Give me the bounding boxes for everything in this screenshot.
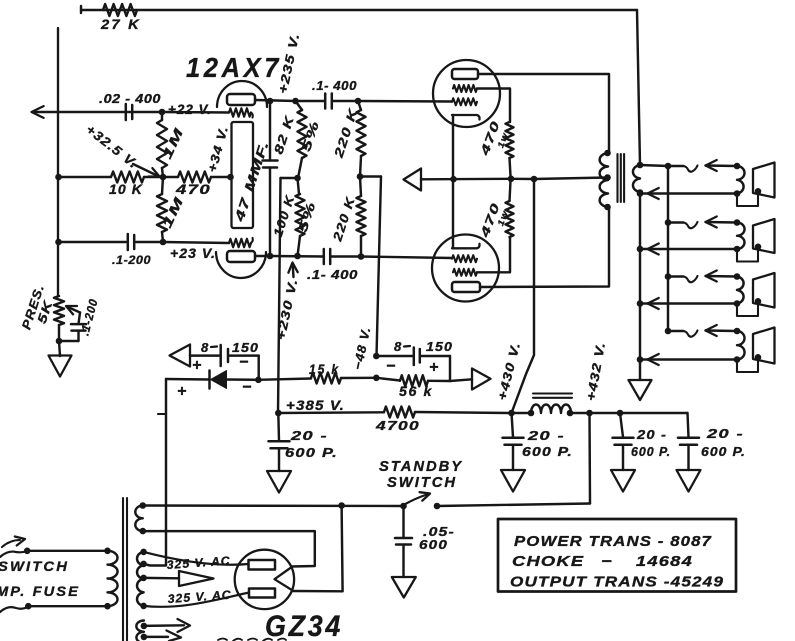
node 220K-A top — [355, 98, 362, 105]
node PT 325-2 tap — [140, 603, 147, 610]
node speaker 1 bottom — [734, 190, 741, 197]
node OT primary bottom — [604, 204, 611, 211]
node .02-400 junction — [159, 109, 166, 116]
wire speaker 2 return — [648, 248, 736, 250]
resistor 1M upper — [161, 112, 163, 120]
jack 3 tip contact — [668, 275, 684, 277]
node standby right — [434, 503, 441, 510]
tube V3 cathode — [452, 244, 480, 249]
node PT heater tap — [140, 575, 147, 582]
node PT bias tap — [140, 561, 147, 568]
node 82K top — [292, 98, 299, 105]
node PT pri bottom — [104, 603, 111, 610]
wire 470 rail — [144, 176, 178, 178]
tube V2 cathode — [452, 115, 480, 120]
node 220K junction — [357, 173, 364, 180]
svg-text:.1-200: .1-200 — [77, 297, 100, 337]
resistor 470-1W A — [506, 122, 514, 158]
svg-text:4700: 4700 — [375, 418, 420, 433]
wire output arrow left — [33, 111, 162, 113]
svg-text:47 MMF.: 47 MMF. — [231, 138, 272, 224]
node speaker 4 top — [734, 328, 741, 335]
node 1M junction — [160, 174, 167, 181]
tube V1 plate lower — [227, 251, 255, 262]
tube V1 grid lower — [229, 239, 251, 247]
node speaker 3 top — [734, 273, 741, 280]
speaker 4 voice coil — [737, 331, 745, 360]
ground cap B — [501, 470, 525, 492]
svg-text:+: + — [192, 357, 202, 374]
node 82K-100K junction — [294, 175, 301, 182]
node 100K bottom — [294, 253, 301, 260]
capacitor 47MMF — [269, 101, 271, 161]
tube V1 bottom envelope arc — [216, 252, 266, 278]
svg-text:+22 V.: +22 V. — [168, 102, 212, 117]
svg-text:150: 150 — [232, 340, 259, 355]
resistor 470-1W B — [506, 201, 514, 237]
svg-text:POWER TRANS - 8087: POWER TRANS - 8087 — [514, 533, 712, 550]
arrow plug 2 — [706, 217, 717, 228]
transformer OT primary — [600, 153, 608, 207]
svg-text:56 k: 56 k — [399, 384, 433, 399]
tube V3 envelope — [432, 235, 499, 302]
arrow plug 1 — [706, 160, 717, 171]
node PT 6v bottom — [141, 634, 148, 641]
node pri bottom terminal — [25, 603, 32, 610]
tube V2 screen grid — [453, 85, 477, 92]
svg-text:20 -: 20 - — [636, 427, 667, 442]
label dashA — [211, 345, 217, 348]
svg-text:20 -: 20 - — [290, 428, 328, 443]
wire secondary to jacks — [640, 165, 668, 166]
transformer PT HV top winding — [135, 506, 143, 532]
node cap C junction — [617, 410, 624, 417]
switch standby lever — [404, 495, 428, 506]
jack 4 tip contact — [668, 330, 684, 332]
node horn terminal 1 — [755, 188, 762, 195]
node 432 junction — [586, 410, 593, 417]
transformer PT 6.3V winding — [136, 621, 144, 641]
resistor 4700 — [384, 407, 415, 418]
svg-text:600 P.: 600 P. — [522, 444, 573, 459]
arrow +230V — [292, 266, 295, 277]
svg-text:+432 V.: +432 V. — [584, 341, 608, 403]
wire B+ rail left — [278, 411, 384, 414]
svg-text:+385 V.: +385 V. — [286, 398, 345, 413]
speaker 3 voice coil — [737, 277, 744, 304]
node speaker 2 top — [734, 219, 741, 226]
svg-text:−48 V.: −48 V. — [351, 325, 374, 371]
wire speaker 3 return — [648, 302, 736, 304]
node horn terminal 2 — [755, 244, 762, 251]
resistor 27K — [103, 4, 137, 16]
svg-text:20 -: 20 - — [527, 428, 565, 443]
label dashB — [404, 345, 410, 348]
capacitor pot .1-200 — [79, 313, 81, 325]
speaker 3 horn — [753, 273, 775, 308]
tube V1 plate upper — [227, 94, 255, 105]
box parts list — [498, 519, 736, 592]
svg-text:MP. FUSE: MP. FUSE — [0, 583, 80, 599]
capacitor 8-150 A — [219, 345, 222, 366]
tube V2 control grid — [452, 98, 477, 105]
wire bias loop top — [376, 355, 412, 357]
svg-text:600: 600 — [419, 537, 448, 552]
arrow +32.5V — [133, 164, 157, 176]
node 47MMF bottom — [267, 253, 274, 260]
svg-text:.1- 400: .1- 400 — [312, 79, 357, 93]
node speaker 1 top — [734, 163, 741, 170]
node PT pri top — [104, 548, 111, 555]
capacitor .1-400 lower — [323, 249, 326, 264]
capacitor .05-600 — [402, 506, 404, 537]
jack 2 tip contact — [668, 221, 684, 223]
jack 1 tip contact — [668, 165, 684, 167]
wire V2 screen to 470 — [477, 89, 510, 123]
node OT primary CT — [604, 174, 611, 181]
svg-text:12AX7: 12AX7 — [186, 52, 282, 83]
node speaker 3 bottom — [734, 300, 741, 307]
tube V2 envelope — [433, 60, 500, 127]
wire rect output — [292, 506, 343, 592]
wire speaker 1 return — [648, 192, 736, 194]
svg-text:600 P.: 600 P. — [631, 444, 671, 459]
wire standby rail — [143, 504, 404, 507]
wire OT center tap — [534, 178, 608, 180]
tube V3 plate — [452, 282, 480, 292]
node PT 6v top — [141, 623, 148, 630]
svg-text:CHOKE − 14684: CHOKE − 14684 — [512, 553, 693, 570]
ground speaker bus — [629, 380, 652, 400]
choke winding — [512, 412, 532, 414]
svg-text:82 K: 82 K — [271, 114, 297, 156]
wire left vertical bus — [57, 28, 59, 296]
node return 3 — [637, 300, 644, 307]
capacitor 20-600 D — [688, 413, 689, 437]
svg-text:+230 V.: +230 V. — [274, 277, 301, 342]
wire speaker feed bus — [667, 166, 669, 331]
node pot bottom — [56, 338, 63, 345]
diode bias rectifier — [208, 371, 211, 389]
wire speaker 2 to horn — [737, 247, 758, 262]
ground .05 cap — [392, 577, 416, 598]
transformer OT secondary — [633, 165, 640, 192]
svg-text:5%: 5% — [296, 199, 319, 234]
resistor 15K — [258, 379, 311, 380]
scribble bottom edge — [218, 639, 286, 641]
wire speaker common bus — [639, 193, 641, 381]
wire V2 plate to OT — [478, 74, 609, 153]
wire bias cap A right — [230, 354, 259, 356]
resistor 10K — [111, 172, 144, 183]
transformer PT core — [122, 498, 124, 641]
node choke left2 — [528, 410, 535, 417]
svg-text:+: + — [429, 359, 439, 376]
node speaker 2 bottom — [734, 246, 741, 253]
wire standby out — [437, 504, 590, 507]
tube V3 control grid — [452, 255, 477, 262]
ground cap C — [611, 470, 635, 492]
node jack 2 feed — [665, 219, 672, 226]
node jack 3 feed — [665, 273, 672, 280]
capacitor 20-600 C — [620, 413, 623, 437]
svg-text:SWITCH: SWITCH — [0, 558, 69, 574]
wire NFB from secondary — [637, 10, 640, 165]
svg-text:.1-200: .1-200 — [112, 253, 151, 267]
resistor 100K — [298, 178, 300, 194]
wire speaker 3 to horn — [737, 301, 758, 316]
wire PI supply stub — [281, 177, 298, 179]
svg-text:−: − — [242, 379, 252, 396]
svg-text:STANDBY: STANDBY — [379, 458, 463, 475]
node OT primary top — [604, 150, 611, 157]
wire switch squiggle — [0, 551, 27, 557]
capacitor .1-400 upper — [324, 94, 327, 109]
node return 4 — [637, 356, 644, 363]
svg-text:15 k: 15 k — [309, 362, 340, 377]
tube GZ34 plate A — [249, 560, 276, 570]
arrow 6v lead B — [144, 636, 168, 638]
tube V1 cathode box — [232, 122, 254, 228]
node cathode rail junction — [55, 239, 62, 246]
node rect out — [338, 502, 345, 509]
node screen B+ tap — [531, 176, 538, 183]
node speaker 4 bottom — [734, 356, 741, 363]
ground presence pot — [59, 341, 60, 356]
svg-text:.02 - 400: .02 - 400 — [99, 92, 161, 106]
wire PI supply drop — [278, 178, 281, 413]
node cathode box tap — [227, 174, 234, 181]
svg-text:GZ34: GZ34 — [265, 610, 343, 641]
wire 10K rail — [58, 176, 111, 178]
svg-text:+: + — [177, 383, 187, 400]
resistor 82K — [296, 101, 303, 110]
svg-text:220 K: 220 K — [331, 106, 360, 160]
node OT secondary top — [637, 162, 644, 169]
speaker 1 horn — [753, 163, 775, 198]
wire cathode rail — [58, 241, 126, 243]
node return 1 — [637, 190, 644, 197]
svg-text:+23 V.: +23 V. — [170, 246, 216, 261]
speaker 4 horn — [753, 328, 775, 364]
arrow left output — [32, 106, 44, 118]
tube V1 top envelope arc — [217, 81, 267, 107]
node PT 325-1 tap — [140, 549, 147, 556]
resistor 470 grid stopper — [178, 172, 211, 183]
wire upper coupling — [299, 100, 325, 102]
node bias loop TL — [373, 353, 380, 360]
speaker 1 voice coil — [737, 166, 744, 194]
svg-text:600 P.: 600 P. — [701, 444, 746, 459]
wire 325 upper — [144, 552, 249, 565]
wire cathode bus — [421, 178, 511, 181]
resistor 220K B — [360, 177, 361, 197]
svg-text:.1- 400: .1- 400 — [307, 268, 358, 282]
node jack 4 feed — [665, 328, 672, 335]
node horn terminal 3 — [755, 298, 762, 305]
wire B+ rail mid — [415, 412, 512, 413]
node screens junction — [508, 176, 515, 183]
transformer PT HV winding — [137, 552, 144, 606]
resistor 1M lower — [162, 177, 163, 194]
svg-text:100 K: 100 K — [271, 193, 298, 238]
wire upper plate out — [255, 100, 296, 101]
wire to V1 grid — [162, 111, 229, 114]
capacitor 8-150 B — [413, 348, 416, 366]
node PT rect top tap — [140, 528, 147, 535]
svg-text:150: 150 — [426, 339, 453, 354]
wire bias feed drop — [377, 177, 382, 357]
wire V3 plate to OT — [480, 207, 609, 287]
node OT secondary bottom — [637, 189, 644, 196]
node bias A junction — [255, 377, 262, 384]
node B+ main — [275, 410, 282, 417]
tube GZ34 envelope — [235, 550, 294, 609]
node PT rail tap — [140, 502, 147, 509]
svg-text:+34 V.: +34 V. — [205, 124, 231, 174]
tube GZ34 plate B — [249, 589, 275, 598]
wire rect top feed — [143, 531, 315, 566]
tube V3 screen grid — [453, 269, 477, 276]
svg-text:20 -: 20 - — [706, 426, 744, 441]
capacitor 20-600 B — [512, 413, 514, 437]
ground cap A — [267, 471, 291, 493]
wire top feedback rail — [81, 9, 637, 11]
svg-text:600 P.: 600 P. — [285, 445, 338, 460]
transformer OT core — [616, 154, 618, 202]
svg-text:8: 8 — [201, 340, 209, 355]
arrow 6v lead A — [144, 624, 184, 627]
wire bias stub — [360, 175, 381, 177]
arrow bias cap A ground — [170, 345, 191, 367]
node choke right — [567, 410, 574, 417]
node 220K-B bottom — [358, 253, 365, 260]
svg-text:27 K: 27 K — [100, 17, 141, 32]
tube V2 plate — [452, 69, 478, 79]
node jack 1 feed — [665, 163, 672, 170]
node pri top terminal — [24, 548, 31, 555]
stub 385 tick — [158, 413, 166, 415]
arrow heater — [144, 577, 179, 580]
capacitor .02-400 — [125, 104, 128, 120]
node cathodes junction — [450, 176, 457, 183]
svg-text:220 K: 220 K — [330, 195, 358, 244]
wire screens to B+ — [511, 178, 534, 181]
wire to upper PA grid — [358, 100, 452, 103]
wire speaker 4 to horn — [737, 357, 758, 372]
node bias loop BL — [373, 375, 380, 382]
svg-text:470: 470 — [175, 182, 211, 197]
wire speaker 1 to horn — [737, 191, 758, 206]
resistor 56K — [376, 378, 400, 381]
choke core — [533, 392, 572, 394]
node 47MMF top — [267, 98, 274, 105]
capacitor 20-600 A — [277, 413, 280, 441]
wire +432 drop — [588, 413, 591, 504]
arrow switch lead — [2, 540, 20, 547]
speaker 2 voice coil — [737, 223, 745, 250]
wire fuse squiggle — [0, 607, 28, 613]
svg-text:8: 8 — [394, 339, 402, 354]
node .1-200 junction — [160, 239, 167, 246]
svg-text:10 K: 10 K — [109, 182, 143, 197]
arrow pot wiper — [69, 308, 80, 313]
wire to V1 lower grid — [136, 241, 163, 243]
node standby left — [400, 503, 407, 510]
wire bias to diode — [144, 379, 166, 566]
svg-text:SWITCH: SWITCH — [387, 474, 457, 491]
wire bias out — [450, 379, 472, 381]
wire V3 screen to 470 — [477, 237, 510, 272]
wire bias cap A top — [190, 354, 219, 356]
wire bias loop top right — [421, 355, 450, 357]
resistor 220K A — [358, 101, 361, 110]
wire PT pri bottom lead — [28, 605, 107, 607]
wire PT pri top lead — [27, 550, 107, 552]
arrow bias out — [472, 369, 491, 390]
node choke left — [508, 410, 515, 417]
potentiometer PRES 5K — [54, 296, 64, 325]
node return 2 — [637, 246, 644, 253]
arrow plug 3 — [706, 271, 717, 282]
svg-text:325 V. AC: 325 V. AC — [166, 554, 231, 572]
svg-text:325 V. AC: 325 V. AC — [167, 588, 232, 606]
node horn terminal 4 — [755, 354, 762, 361]
arrow cathode return — [404, 169, 422, 191]
ground cap D — [677, 470, 701, 492]
wire 325 lower — [144, 593, 249, 607]
arrow plug 4 — [706, 325, 717, 336]
svg-text:−: − — [386, 358, 396, 375]
wire B+ rail right — [571, 412, 688, 414]
wire to lower PA grid — [361, 257, 452, 259]
wire speaker 4 return — [648, 358, 736, 360]
tube GZ34 cathode wedge — [275, 568, 292, 590]
wire lower coupling — [270, 255, 324, 258]
svg-text:OUTPUT TRANS -45249: OUTPUT TRANS -45249 — [510, 574, 724, 591]
node grid rail junction — [55, 174, 62, 181]
wire 470 to cathode box — [211, 176, 231, 178]
wire lower plate out — [255, 255, 270, 257]
capacitor .1-200 — [127, 234, 130, 250]
tube V1 grid upper — [229, 108, 251, 116]
speaker 2 horn — [753, 219, 775, 253]
transformer PT primary — [108, 551, 118, 606]
wire bias rail left — [166, 378, 210, 381]
